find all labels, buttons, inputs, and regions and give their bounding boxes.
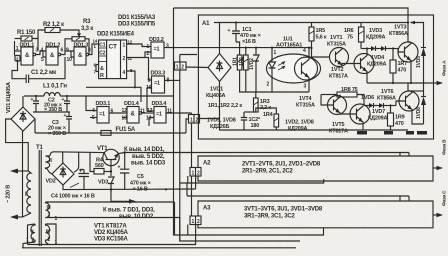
resistor 1R4 <box>274 114 279 127</box>
transistor 1VT3 <box>398 42 418 62</box>
cap mark A1 bottom 3 <box>406 131 414 135</box>
gate DD3.3 <box>152 76 165 93</box>
wire III bottom <box>46 217 180 219</box>
rail A1 inner top <box>214 22 408 24</box>
diode bridge VD1 <box>11 107 35 131</box>
bus A3 feed <box>187 195 409 197</box>
gate DD1.2 output bubble <box>58 53 61 56</box>
wire DD1.4 in2 <box>122 117 127 119</box>
transformer T1 winding V <box>31 224 35 242</box>
wire R2 right <box>60 30 79 34</box>
wire DD3.3 in2 <box>147 87 152 89</box>
wire DD1.4 out to DD3.4 <box>142 112 154 114</box>
wire DD3.3 out <box>165 79 180 81</box>
wire VD1 left mains <box>6 119 29 171</box>
capacitor C2a <box>33 96 39 112</box>
wire DD3.1 in <box>86 96 97 111</box>
wire III top <box>46 201 175 203</box>
wire R2 left <box>38 30 45 39</box>
wire row feed <box>86 87 141 102</box>
wire VD2 plus stub <box>62 152 64 163</box>
gate DD1.2 <box>46 47 58 65</box>
gate DD3.4 <box>154 107 166 124</box>
wire DD1.1 inputs <box>15 50 22 52</box>
bus vertical C <box>191 113 193 216</box>
bottom bus y236 <box>174 202 176 235</box>
wire R1 right <box>32 39 38 52</box>
resistor R4 <box>94 169 104 175</box>
wire 1R1 1R2 top <box>236 42 240 55</box>
capacitor C1 <box>26 75 28 84</box>
bus to A2 step <box>399 153 401 157</box>
diode 1VD8 <box>423 83 425 96</box>
capacitor 1C1 <box>232 23 240 43</box>
resistor 1R3 <box>254 98 259 112</box>
bus below A2 <box>180 179 324 183</box>
wire IV bottom <box>46 242 49 245</box>
wire VD1 bottom mains <box>22 131 24 217</box>
gate DD3.2 <box>151 42 164 58</box>
wire A2 pin1 to bus <box>187 176 189 183</box>
resistor 1R6 <box>359 27 365 42</box>
resistor R2 <box>45 28 60 33</box>
phase A arrow <box>434 82 439 84</box>
wire DD2 out2 <box>127 58 152 81</box>
resistor 1R2 <box>244 55 249 70</box>
wire 1VT3 collector <box>408 41 411 43</box>
wire VD2 minus down <box>62 185 64 190</box>
opto 1U1 led <box>269 57 276 80</box>
wire A1 common <box>240 70 309 92</box>
wire V bottom <box>23 242 35 248</box>
wire DD2 R inputs <box>96 64 99 66</box>
inductor L1 <box>24 93 174 97</box>
junction L1 rail dots <box>35 95 37 97</box>
bottom bus IV <box>28 225 196 245</box>
wire DD3.4 out <box>166 112 192 114</box>
mains arrow top <box>16 170 28 172</box>
wire opto drive <box>164 47 312 49</box>
junction 1C1 <box>235 21 237 23</box>
resistor 1R7 <box>390 60 396 73</box>
mains arrow bottom <box>16 216 23 218</box>
gate DD1.4 <box>127 107 139 124</box>
cap mark A1 bottom 2 <box>384 131 393 135</box>
wire DD3.1 out to DD1.4 <box>109 112 127 114</box>
block A3 pins <box>190 216 201 225</box>
counter DD2 cell C1 <box>99 47 107 49</box>
wire pin box A1 bottom to bridge <box>200 82 220 119</box>
wire pin box A1 top <box>186 66 208 69</box>
wire DD2 out4 down <box>127 71 135 87</box>
transformer T1 core <box>38 150 40 246</box>
block A2 <box>198 156 433 181</box>
diode 1VD3 <box>361 48 371 50</box>
capacitor 1C2 <box>241 112 247 130</box>
wire C4 drop <box>74 152 79 172</box>
resistor 1R8 <box>337 92 357 97</box>
bus vertical A <box>174 8 324 235</box>
transistor 1VT6 <box>399 91 419 111</box>
transistor 1VT5 <box>350 104 370 124</box>
wire vB top <box>180 54 197 56</box>
wire C2 bottom rail <box>33 111 70 113</box>
bus to A3 step <box>399 196 401 201</box>
scan noise overlay <box>0 0 1 1</box>
ground rail VT1 <box>63 188 196 191</box>
capacitor C4 <box>79 170 90 190</box>
rail A top <box>174 8 409 42</box>
terminal box 2 <box>15 56 20 62</box>
diode 1VD4 <box>376 48 382 50</box>
wire A2 pin2 to gnd <box>195 176 197 189</box>
capacitor C5 <box>120 153 129 190</box>
wire DD2 out1 to DD3.2 <box>127 44 151 47</box>
wire V top <box>28 224 36 245</box>
wire VD1 right to bus <box>34 119 36 133</box>
phase C arrow <box>433 214 438 216</box>
opto 1U1 transistor <box>295 57 318 80</box>
bus vertical B <box>180 55 300 242</box>
wire R3 right <box>85 39 89 55</box>
wire DD3.4 in2 <box>149 118 154 127</box>
wire DC bus <box>35 132 101 134</box>
resistor 1R9 <box>388 113 394 126</box>
gate DD3.1 <box>97 107 109 124</box>
resistor 1R5 <box>309 27 314 41</box>
wire DD2 out2 to DD3.2 pin2 <box>145 52 151 58</box>
counter DD2 <box>99 40 127 79</box>
wire II bottom to VD2 <box>47 169 52 175</box>
capacitor C2b <box>64 96 70 112</box>
wire dc bus to pin box <box>186 119 189 133</box>
counter DD2 cell C2 <box>99 55 107 57</box>
wire IV top <box>46 224 57 245</box>
junction DD3.2 out <box>172 47 174 49</box>
transistor 1VT2 <box>354 54 374 74</box>
wire A3 pin1 to bus <box>187 225 189 236</box>
transformer T1 winding III <box>46 202 50 218</box>
resistor 1R1 <box>237 55 242 70</box>
wire feedback <box>12 61 26 79</box>
transformer T1 winding II <box>46 156 51 169</box>
wire DD1.2 out to DD1.3 <box>61 51 74 55</box>
capacitor C4 leader <box>70 183 79 188</box>
block A3 <box>198 201 433 228</box>
gate DD1.1 <box>21 47 33 65</box>
transformer T1 winding IV <box>46 224 50 242</box>
cap mark A1 bottom 4 <box>417 131 427 135</box>
opto 1U1 <box>267 54 321 83</box>
wire 1VT6 emitter <box>412 111 424 124</box>
diode 1VD7 <box>374 105 380 107</box>
wire output node A <box>411 62 434 83</box>
gate DD1.3 <box>74 47 86 65</box>
wire winding II top over <box>50 152 104 156</box>
wire DD1.1 out to DD1.2 <box>36 51 46 55</box>
wire R1 left <box>15 38 22 40</box>
resistor R3 <box>72 37 85 41</box>
wire input terminal <box>14 41 16 56</box>
zener VD3 <box>108 177 114 190</box>
wire DD1.3 out to DD2 <box>89 44 99 55</box>
pin box pair A1 top <box>175 62 187 70</box>
transistor VT1 <box>103 149 119 165</box>
bottom bus <box>22 247 296 249</box>
block A1 <box>198 15 433 139</box>
block A2 pins <box>190 168 201 177</box>
resistor R1 <box>21 36 32 41</box>
bottom bus y241 <box>179 218 181 242</box>
gate DD1.4 output bubble <box>139 112 142 115</box>
plus5 bus <box>124 152 409 154</box>
phase B arrow <box>433 167 438 169</box>
transformer T1 winding I <box>23 171 32 217</box>
transistor 1VT4 <box>328 96 347 115</box>
diode bridge VD2 <box>52 163 74 185</box>
gate DD1.3 output bubble <box>86 53 89 56</box>
diode bridge 1VD1 <box>208 54 231 82</box>
A1 inner bottom rail <box>220 119 409 131</box>
cap mark A1 bottom 1 <box>357 131 367 135</box>
wire 1VD1 top <box>219 23 221 54</box>
diode 1VD5 <box>411 23 424 48</box>
fuse FU1 <box>101 131 111 136</box>
pin box pair A1 bottom <box>189 115 200 124</box>
zener 1VD2 <box>253 48 259 70</box>
diode 1VD6 <box>364 105 369 107</box>
wire R3 left <box>65 39 72 51</box>
gate DD1.1 output bubble <box>33 53 36 56</box>
capacitor C3 <box>66 112 72 133</box>
junction diodes <box>366 47 368 49</box>
wire VD1 top <box>22 96 24 107</box>
wire 1VT6 collector <box>408 83 412 91</box>
transistor 1VT1 <box>330 48 349 67</box>
junction rail right <box>407 21 409 23</box>
counter DD2 cell R <box>99 61 107 63</box>
